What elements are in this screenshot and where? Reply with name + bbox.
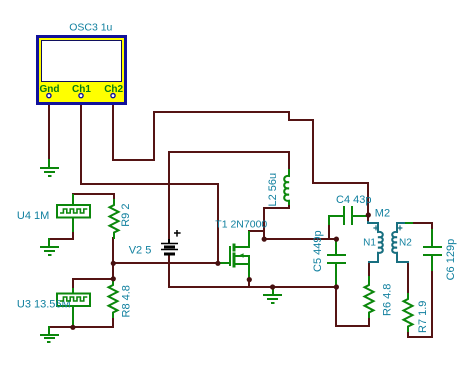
svg-text:U4 1M: U4 1M (17, 210, 49, 222)
svg-text:C6 129p: C6 129p (445, 239, 457, 281)
svg-text:OSC3 1u: OSC3 1u (69, 22, 112, 34)
svg-text:N1: N1 (363, 238, 376, 249)
svg-text:R7 1.9: R7 1.9 (417, 301, 429, 333)
svg-text:T1 2N7000: T1 2N7000 (215, 218, 267, 230)
svg-text:N2: N2 (399, 238, 412, 249)
svg-text:C4 43p: C4 43p (336, 194, 371, 206)
svg-text:V2 5: V2 5 (129, 244, 152, 256)
svg-text:C5 449p: C5 449p (312, 230, 324, 272)
svg-text:R8 4.8: R8 4.8 (121, 285, 133, 317)
svg-text:L2 56u: L2 56u (267, 173, 279, 207)
svg-text:M2: M2 (375, 208, 390, 220)
svg-text:R9 2: R9 2 (120, 204, 132, 227)
svg-text:R6 4.8: R6 4.8 (382, 284, 394, 316)
